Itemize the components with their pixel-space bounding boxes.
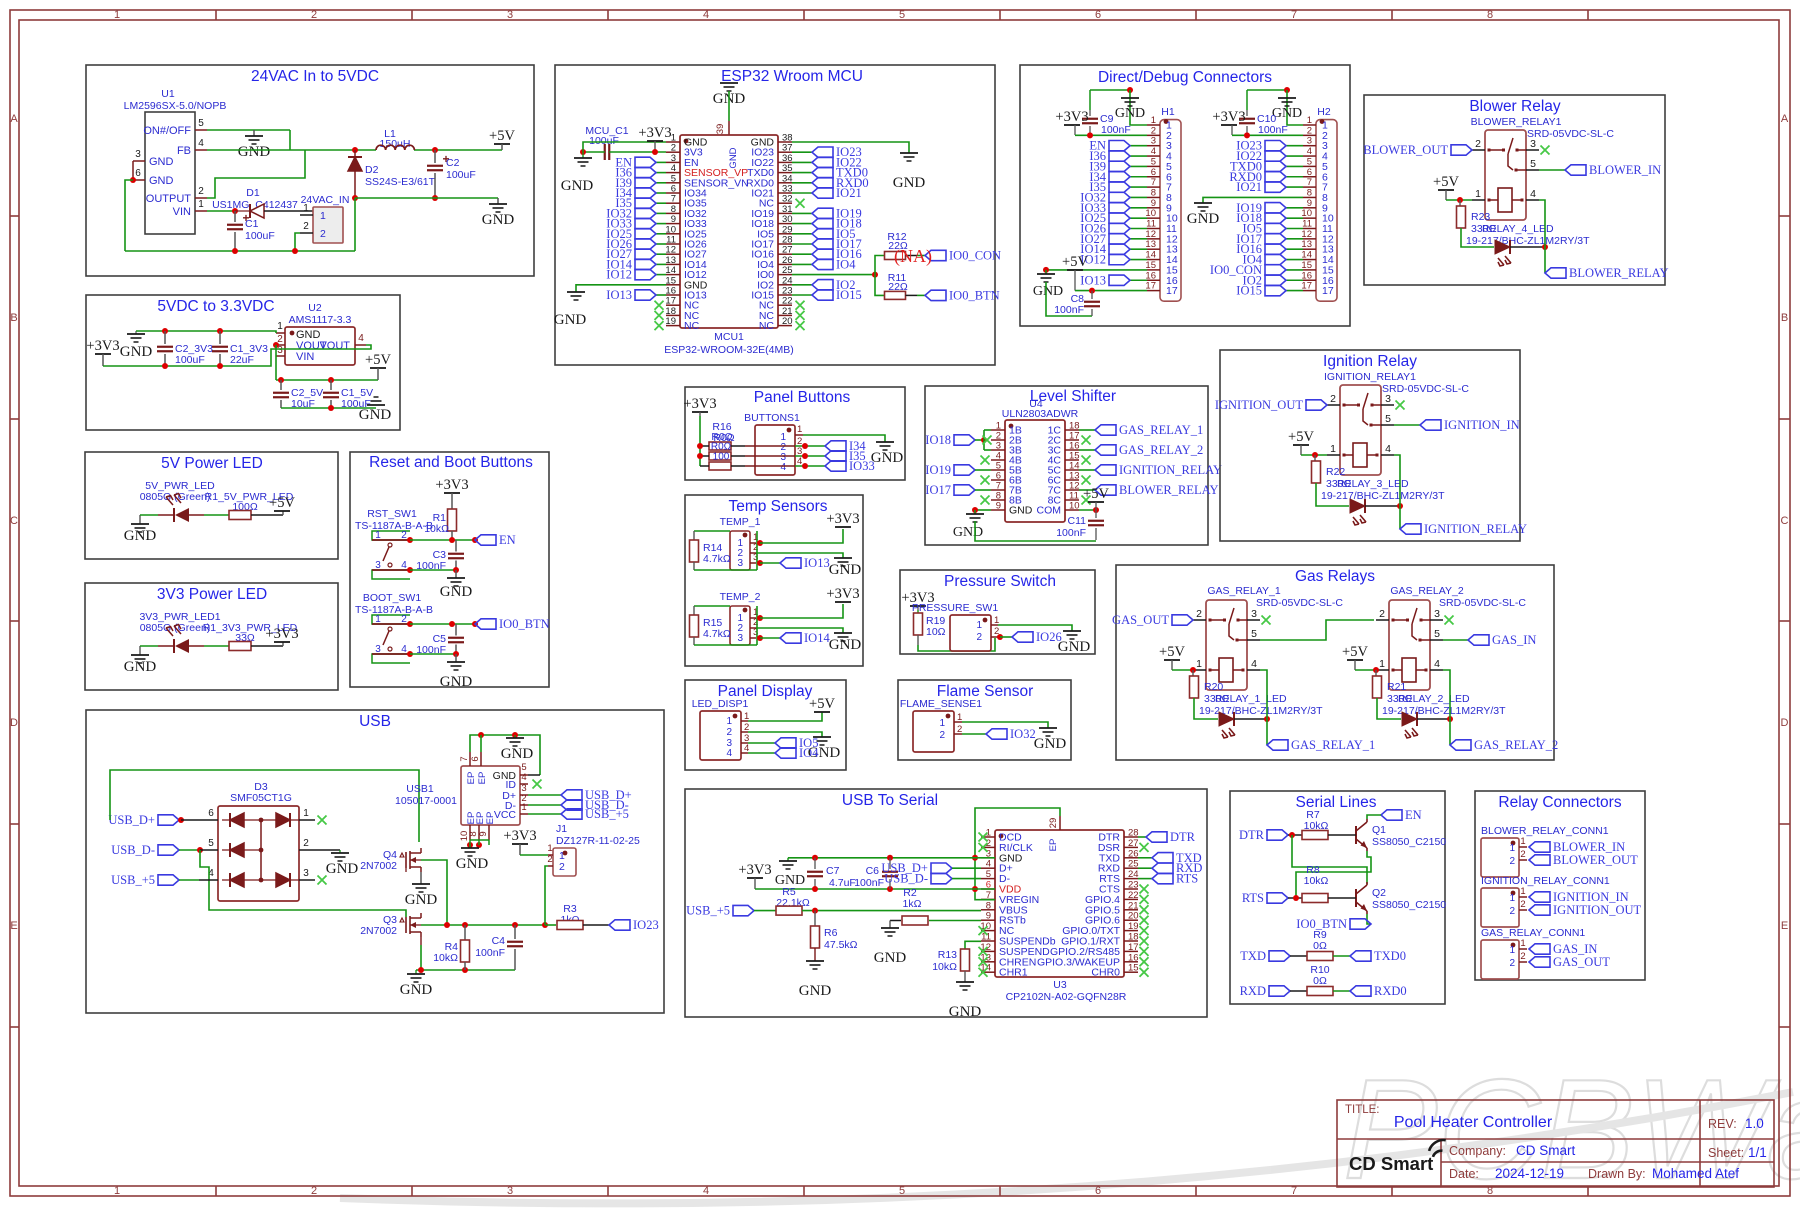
capacitor C5 100nF — [448, 637, 464, 639]
svg-text:3: 3 — [1434, 608, 1440, 620]
wire top loop USB_D+ to Q4 drain — [110, 770, 419, 842]
net flag I34 — [825, 441, 846, 451]
svg-text:+5V: +5V — [1342, 644, 1368, 660]
svg-text:REV:: REV: — [1708, 1117, 1737, 1131]
svg-text:1: 1 — [1509, 843, 1515, 854]
capacitor C1_3V3 22uF — [219, 331, 221, 344]
svg-text:28: 28 — [1128, 828, 1139, 839]
svg-text:19-217/BHC-ZL1M2RY/3T: 19-217/BHC-ZL1M2RY/3T — [1199, 705, 1323, 717]
resistor R1_5V_PWR_LED 100ohm — [229, 511, 251, 520]
wire Q1 collector to EN — [1367, 815, 1381, 819]
wire pin5 to GND — [207, 129, 290, 131]
capacitor C2_3V3 100uF — [164, 331, 166, 344]
wire R19 bottom to pin2 — [918, 638, 995, 651]
net flags left side — [656, 161, 666, 163]
wire Q3 source down — [420, 937, 422, 945]
wire D2 to rail — [354, 198, 356, 251]
svg-text:GND: GND — [326, 861, 359, 877]
svg-text:E: E — [1781, 920, 1788, 932]
svg-text:2: 2 — [1520, 899, 1525, 910]
svg-text:Blower Relay: Blower Relay — [1469, 98, 1561, 115]
svg-text:5V Power LED: 5V Power LED — [161, 455, 263, 472]
svg-text:39: 39 — [715, 124, 726, 135]
svg-text:3: 3 — [737, 633, 743, 644]
svg-text:CD Smart: CD Smart — [1516, 1143, 1576, 1158]
svg-text:26: 26 — [1128, 848, 1139, 859]
resistor R18 — [709, 462, 731, 470]
svg-text:R23: R23 — [1471, 211, 1490, 223]
ground — [1063, 630, 1081, 632]
svg-text:100: 100 — [713, 452, 730, 463]
wire +5V to relay1 pin1 — [1172, 669, 1193, 671]
svg-text:1: 1 — [939, 718, 945, 729]
svg-text:10kΩ: 10kΩ — [932, 961, 957, 973]
svg-text:BLOWER_RELAY1: BLOWER_RELAY1 — [1471, 116, 1562, 128]
net flag DTR — [1267, 830, 1288, 840]
svg-text:+5V: +5V — [1288, 429, 1314, 445]
ground pin38 — [900, 152, 918, 154]
capacitor C1_5V 100uF — [330, 380, 332, 390]
svg-text:+3V3: +3V3 — [265, 626, 298, 642]
svg-text:SS8050_C2150: SS8050_C2150 — [1372, 836, 1446, 848]
svg-text:C6: C6 — [866, 865, 880, 877]
svg-text:2: 2 — [1520, 849, 1525, 860]
svg-text:IGNITION_IN: IGNITION_IN — [1444, 418, 1520, 432]
block Blower Relay — [1364, 95, 1665, 285]
svg-text:6: 6 — [1095, 1185, 1101, 1197]
svg-text:PRESSURE_SW1: PRESSURE_SW1 — [912, 602, 999, 614]
svg-text:H2: H2 — [1317, 106, 1331, 118]
no-connect pin3 — [299, 879, 315, 881]
transistor Q3 2N7002 — [405, 917, 407, 933]
svg-text:C1: C1 — [245, 218, 259, 230]
svg-text:SRD-05VDC-SL-C: SRD-05VDC-SL-C — [1382, 383, 1469, 395]
block Relay Connectors — [1475, 791, 1645, 980]
ground — [876, 441, 894, 443]
svg-text:USB_+5: USB_+5 — [111, 873, 155, 887]
svg-text:1: 1 — [114, 1185, 120, 1197]
svg-text:GND: GND — [893, 175, 926, 191]
svg-text:R13: R13 — [938, 949, 957, 961]
wire SUSPENDb to R13 — [965, 941, 981, 950]
svg-text:Q1: Q1 — [1372, 824, 1386, 836]
svg-text:2: 2 — [401, 530, 407, 541]
svg-text:GND: GND — [1034, 736, 1067, 752]
svg-text:16: 16 — [1128, 952, 1139, 963]
svg-text:17: 17 — [1301, 281, 1312, 292]
svg-text:17: 17 — [1145, 281, 1156, 292]
svg-text:A: A — [1781, 113, 1789, 125]
wire 5V return rail — [355, 197, 498, 199]
svg-text:+3V3: +3V3 — [683, 396, 716, 412]
svg-text:TXD: TXD — [1240, 949, 1266, 963]
svg-text:15: 15 — [1145, 260, 1156, 271]
svg-text:Reset and Boot Buttons: Reset and Boot Buttons — [369, 454, 533, 471]
net flag RXD — [1269, 986, 1290, 996]
resistor R17 — [709, 452, 731, 460]
svg-text:+5V: +5V — [1433, 174, 1459, 190]
svg-text:IGNITION_IN: IGNITION_IN — [1553, 890, 1629, 904]
wire EP bottom to gnd — [470, 839, 489, 841]
svg-text:2: 2 — [401, 614, 407, 625]
svg-text:GND: GND — [874, 950, 907, 966]
block Flame Sensor — [898, 680, 1071, 760]
svg-text:IO0_BTN: IO0_BTN — [949, 288, 1000, 302]
svg-text:D1: D1 — [246, 187, 260, 199]
svg-text:16: 16 — [1301, 270, 1312, 281]
wire resistor to +3V3 — [251, 645, 283, 647]
svg-text:VCC: VCC — [494, 809, 517, 821]
svg-text:47.5kΩ: 47.5kΩ — [824, 939, 858, 951]
svg-text:17: 17 — [1166, 285, 1178, 297]
svg-text:2: 2 — [1151, 125, 1156, 136]
block 3V3 Power LED — [85, 583, 338, 690]
svg-text:GND: GND — [871, 450, 904, 466]
svg-text:19: 19 — [1128, 921, 1139, 932]
svg-text:24VAC In to 5VDC: 24VAC In to 5VDC — [251, 68, 379, 85]
wire H1 pin15 gnd — [1046, 269, 1147, 271]
wire pin2 to flag — [991, 636, 998, 638]
svg-text:15: 15 — [1128, 963, 1139, 974]
ground — [834, 632, 852, 634]
svg-text:Direct/Debug Connectors: Direct/Debug Connectors — [1098, 69, 1272, 86]
wire pin1 gnd — [583, 142, 666, 152]
resistor R23 330 — [1459, 200, 1461, 206]
svg-text:C: C — [10, 515, 18, 527]
svg-text:1: 1 — [375, 614, 381, 625]
svg-text:ESP32-WROOM-32E(4MB): ESP32-WROOM-32E(4MB) — [664, 344, 794, 356]
svg-text:+3V3: +3V3 — [435, 477, 468, 493]
svg-text:C7: C7 — [826, 865, 840, 877]
ground H1 bottom — [1045, 270, 1047, 274]
wire pin2 to gnd — [750, 552, 756, 554]
svg-text:SS8050_C2150: SS8050_C2150 — [1372, 899, 1446, 911]
wire pin4 down to flag — [1539, 200, 1545, 273]
svg-text:RELAY_3_LED: RELAY_3_LED — [1337, 478, 1409, 490]
U3 left pins — [981, 836, 995, 838]
wire bottom gnd rail — [416, 969, 515, 971]
svg-text:19-217/BHC-ZL1M2RY/3T: 19-217/BHC-ZL1M2RY/3T — [1382, 705, 1506, 717]
svg-text:21: 21 — [1128, 900, 1139, 911]
svg-text:IO23: IO23 — [633, 918, 659, 932]
svg-text:Sheet:: Sheet: — [1708, 1146, 1744, 1160]
svg-text:1: 1 — [1151, 115, 1156, 126]
svg-text:A: A — [10, 113, 18, 125]
svg-text:IO4: IO4 — [836, 257, 856, 271]
svg-text:SRD-05VDC-SL-C: SRD-05VDC-SL-C — [1256, 597, 1343, 609]
svg-text:+3V3: +3V3 — [826, 511, 859, 527]
svg-text:RST_SW1: RST_SW1 — [367, 508, 417, 520]
svg-text:U3: U3 — [1053, 979, 1067, 991]
svg-text:2: 2 — [311, 9, 317, 21]
svg-text:Pressure Switch: Pressure Switch — [944, 573, 1056, 590]
capacitor C8 100nF — [1091, 291, 1093, 299]
net flag USB_+5 — [733, 905, 754, 915]
chip MCU1 ESP32-WROOM-32E — [680, 135, 778, 328]
svg-text:BLOWER_OUT: BLOWER_OUT — [1363, 143, 1448, 157]
resistor R14 4.7k — [694, 530, 730, 532]
svg-text:USB1: USB1 — [406, 783, 434, 795]
svg-text:7: 7 — [1291, 9, 1297, 21]
svg-text:U2: U2 — [308, 302, 322, 314]
svg-text:EP: EP — [466, 772, 477, 785]
LED 3V3_PWR_LED1 — [140, 645, 158, 647]
svg-text:29: 29 — [1048, 818, 1059, 829]
svg-text:4: 4 — [198, 138, 204, 149]
wire +5V to pin1 — [1301, 454, 1327, 456]
svg-text:4: 4 — [401, 644, 407, 655]
wire bottom — [694, 569, 757, 571]
no-connect U3 right pins — [1140, 843, 1149, 852]
net flag USB_D+ to pin4 — [931, 863, 952, 873]
resistor R6 47.5k — [814, 911, 816, 926]
gnd rail — [788, 857, 995, 859]
svg-text:1: 1 — [1520, 886, 1525, 897]
svg-text:USB To Serial: USB To Serial — [842, 792, 938, 809]
ground — [787, 858, 789, 861]
svg-text:IGNITION_OUT: IGNITION_OUT — [1553, 903, 1642, 917]
svg-text:+3V3: +3V3 — [1055, 109, 1088, 125]
svg-text:IO26: IO26 — [1036, 630, 1062, 644]
svg-text:GND: GND — [1187, 211, 1220, 227]
svg-text:4.7kΩ: 4.7kΩ — [703, 553, 731, 565]
svg-text:19-217/BHC-ZL1M2RY/3T: 19-217/BHC-ZL1M2RY/3T — [1321, 490, 1445, 502]
no-connect U3 left pins — [979, 833, 988, 842]
svg-text:CP2102N-A02-GQFN28R: CP2102N-A02-GQFN28R — [1006, 991, 1127, 1003]
svg-text:COM: COM — [1037, 505, 1062, 517]
svg-text:2: 2 — [1509, 958, 1515, 969]
svg-text:GND: GND — [400, 982, 433, 998]
diode D2 SS24S-E3/61T — [352, 147, 358, 153]
svg-text:+5V: +5V — [489, 128, 515, 144]
wire GND pin9 — [975, 509, 991, 511]
svg-text:3: 3 — [1530, 138, 1536, 150]
wire pin4 down to flag — [1394, 455, 1400, 529]
net flag IO0_BTN — [925, 290, 946, 300]
svg-text:17: 17 — [1322, 285, 1334, 297]
net flag IO18 — [954, 435, 975, 445]
svg-text:GND: GND — [1033, 284, 1063, 299]
capacitor C2_5V 10uF — [280, 380, 282, 390]
capacitor C10 100nF — [1246, 90, 1248, 110]
svg-text:TXD0: TXD0 — [1374, 949, 1406, 963]
wire Q3 drain node to IO23 row — [421, 924, 545, 926]
svg-text:10Ω: 10Ω — [926, 626, 946, 638]
svg-text:10kΩ: 10kΩ — [433, 952, 458, 964]
title block frame — [1337, 1100, 1774, 1187]
svg-text:BUTTONS1: BUTTONS1 — [744, 412, 800, 424]
svg-text:DZ127R-11-02-25: DZ127R-11-02-25 — [556, 835, 640, 847]
resistor R15 4.7k — [694, 605, 730, 607]
svg-text:100uF: 100uF — [175, 354, 205, 366]
svg-text:27: 27 — [1128, 838, 1139, 849]
wire pin1 to gnd — [954, 721, 962, 723]
svg-text:100nF: 100nF — [1054, 304, 1084, 316]
net flag IGNITION_IN — [1420, 420, 1441, 430]
svg-text:ULN2803ADWR: ULN2803ADWR — [1002, 408, 1079, 420]
svg-text:2N7002: 2N7002 — [360, 860, 397, 872]
svg-text:4: 4 — [358, 333, 364, 344]
svg-text:+5V: +5V — [809, 696, 835, 712]
svg-text:EN: EN — [1405, 808, 1422, 822]
transistor Q2 SS8050_C2150 — [1355, 889, 1357, 907]
net flag IGNITION_RELAY — [1400, 524, 1421, 534]
svg-text:1.0: 1.0 — [1745, 1116, 1764, 1131]
wire pin15 gnd — [576, 285, 666, 292]
svg-text:TS-1187A-B-A-B: TS-1187A-B-A-B — [355, 520, 433, 532]
svg-text:IO32: IO32 — [1010, 727, 1036, 741]
svg-text:BLOWER_OUT: BLOWER_OUT — [1553, 853, 1638, 867]
ground USB1 top — [514, 735, 516, 738]
svg-text:RTS: RTS — [1176, 872, 1198, 886]
svg-text:19-217/BHC-ZL1M2RY/3T: 19-217/BHC-ZL1M2RY/3T — [1466, 235, 1590, 247]
PCBWay watermark — [340, 1050, 1800, 1209]
svg-text:BLOWER_IN: BLOWER_IN — [1589, 163, 1661, 177]
net flag I35 — [825, 451, 846, 461]
wire pin1 to gnd — [991, 624, 998, 626]
svg-text:R21: R21 — [1387, 681, 1406, 693]
svg-text:100uF: 100uF — [446, 169, 476, 181]
net flag TXD0 — [1350, 951, 1371, 961]
svg-text:IO17: IO17 — [925, 483, 951, 497]
net flag IGNITION_OUT — [1529, 905, 1550, 915]
no-connect pin3 — [1396, 401, 1405, 410]
svg-text:105017-0001: 105017-0001 — [395, 795, 457, 807]
svg-text:GAS_RELAY_2: GAS_RELAY_2 — [1390, 585, 1464, 597]
wire relay2 pin5 to GAS_IN — [1443, 639, 1468, 641]
net flag IO4 — [775, 748, 796, 758]
net flag GAS_OUT — [1529, 957, 1550, 967]
net flag GAS_RELAY_1 — [1267, 740, 1288, 750]
svg-text:2: 2 — [1475, 138, 1481, 150]
wire pin4 to flag IO4 — [741, 752, 748, 754]
svg-text:BLOWER_IN: BLOWER_IN — [1553, 840, 1625, 854]
ground — [1039, 727, 1057, 729]
wire VIN to 5V rail — [275, 345, 277, 380]
svg-text:IO15: IO15 — [1236, 284, 1262, 298]
svg-text:5: 5 — [1385, 413, 1391, 425]
svg-text:1: 1 — [797, 424, 802, 435]
capacitor C9 100nF — [1089, 90, 1091, 110]
wire pin3 to flag — [750, 562, 756, 564]
svg-text:4: 4 — [1530, 188, 1536, 200]
svg-text:1: 1 — [726, 716, 732, 727]
wire H2 pin2 rail — [1232, 134, 1303, 136]
svg-text:IO19: IO19 — [925, 463, 951, 477]
svg-text:DTR: DTR — [1170, 830, 1196, 844]
wire pin2 to gnd — [741, 731, 748, 733]
svg-text:CD Smart: CD Smart — [1349, 1153, 1433, 1174]
svg-text:2: 2 — [1509, 856, 1515, 867]
svg-text:GND: GND — [1058, 639, 1091, 655]
wire 5V rail — [276, 379, 378, 381]
ground Q3 source — [415, 970, 417, 974]
net flag IO33 — [825, 461, 846, 471]
svg-text:2: 2 — [1509, 906, 1515, 917]
svg-text:IO15: IO15 — [836, 288, 862, 302]
LED RELAY_3_LED — [1316, 483, 1349, 506]
block Level Shifter — [925, 386, 1208, 545]
svg-text:2: 2 — [320, 228, 326, 240]
wires resistors to +3V3 rail — [700, 445, 709, 447]
svg-text:4.7uF: 4.7uF — [829, 877, 856, 889]
svg-text:20: 20 — [782, 316, 793, 327]
net flag RTS — [1267, 893, 1288, 903]
net flag IO17 — [954, 485, 975, 495]
svg-text:C4: C4 — [492, 935, 506, 947]
wire pin2 to gnd — [299, 849, 340, 851]
net flag GAS_RELAY_1 — [1095, 425, 1116, 435]
svg-text:E: E — [10, 920, 17, 932]
block 5VDC to 3.3VDC — [86, 295, 400, 430]
svg-text:1: 1 — [1509, 893, 1515, 904]
svg-text:R6: R6 — [824, 927, 838, 939]
svg-text:Company:: Company: — [1449, 1144, 1506, 1158]
svg-text:1: 1 — [547, 843, 552, 854]
net flag IO13 — [780, 558, 801, 568]
net flag USB_D- — [158, 845, 179, 855]
svg-text:IO0_CON: IO0_CON — [949, 249, 1001, 263]
LED RELAY_4_LED — [1461, 228, 1494, 247]
net flag GAS_IN — [1468, 635, 1489, 645]
transistor Q4 2N7002 — [405, 852, 407, 868]
svg-text:SMF05CT1G: SMF05CT1G — [230, 792, 292, 804]
svg-text:GND: GND — [124, 659, 157, 675]
svg-text:10: 10 — [1301, 208, 1312, 219]
svg-text:GAS_OUT: GAS_OUT — [1112, 613, 1169, 627]
svg-text:R20: R20 — [1204, 681, 1223, 693]
wire crossing RTS-Q1 — [1296, 851, 1371, 898]
wire IO0 pin25 node — [792, 274, 875, 276]
svg-text:4: 4 — [1434, 658, 1440, 670]
svg-text:J1: J1 — [556, 823, 567, 835]
net flag IO0_CON — [925, 250, 946, 260]
svg-text:IO18: IO18 — [925, 433, 951, 447]
svg-text:11: 11 — [1302, 219, 1312, 230]
net flag USB_D- right — [528, 804, 561, 806]
wire row1 to gnd — [795, 434, 803, 436]
net flags H1 — [1130, 145, 1147, 147]
wire pin2 to flag — [954, 733, 962, 735]
net flag USB_D+ right — [528, 794, 561, 796]
svg-text:1: 1 — [277, 321, 283, 332]
svg-text:11: 11 — [1146, 219, 1156, 230]
svg-text:IO13: IO13 — [606, 288, 632, 302]
wire pin1 to +3V3 — [750, 617, 756, 619]
ground H2 top — [1278, 97, 1296, 99]
svg-text:GAS_RELAY_1: GAS_RELAY_1 — [1291, 738, 1375, 752]
svg-text:0Ω: 0Ω — [1313, 975, 1327, 987]
ground MCU_C1 — [580, 149, 586, 155]
svg-text:2: 2 — [1196, 608, 1202, 620]
net flag BLOWER_OUT — [1451, 145, 1472, 155]
svg-text:GND: GND — [440, 584, 473, 600]
svg-text:C11: C11 — [1068, 515, 1087, 527]
net flags right side — [792, 151, 812, 153]
svg-text:GAS_IN: GAS_IN — [1553, 942, 1597, 956]
wire pin3 to flag — [750, 637, 756, 639]
svg-text:GND: GND — [359, 407, 392, 423]
svg-text:USB_D-: USB_D- — [111, 843, 155, 857]
svg-text:12: 12 — [1301, 229, 1312, 240]
net flag DTR — [1138, 836, 1146, 838]
svg-text:16: 16 — [1145, 270, 1156, 281]
wire VIN — [207, 210, 235, 212]
transistor Q1 SS8050_C2150 — [1355, 826, 1357, 844]
svg-text:VIN: VIN — [173, 206, 191, 218]
svg-text:GAS_RELAY_1: GAS_RELAY_1 — [1119, 423, 1203, 437]
wire rows 2-4 to flags — [731, 445, 745, 447]
